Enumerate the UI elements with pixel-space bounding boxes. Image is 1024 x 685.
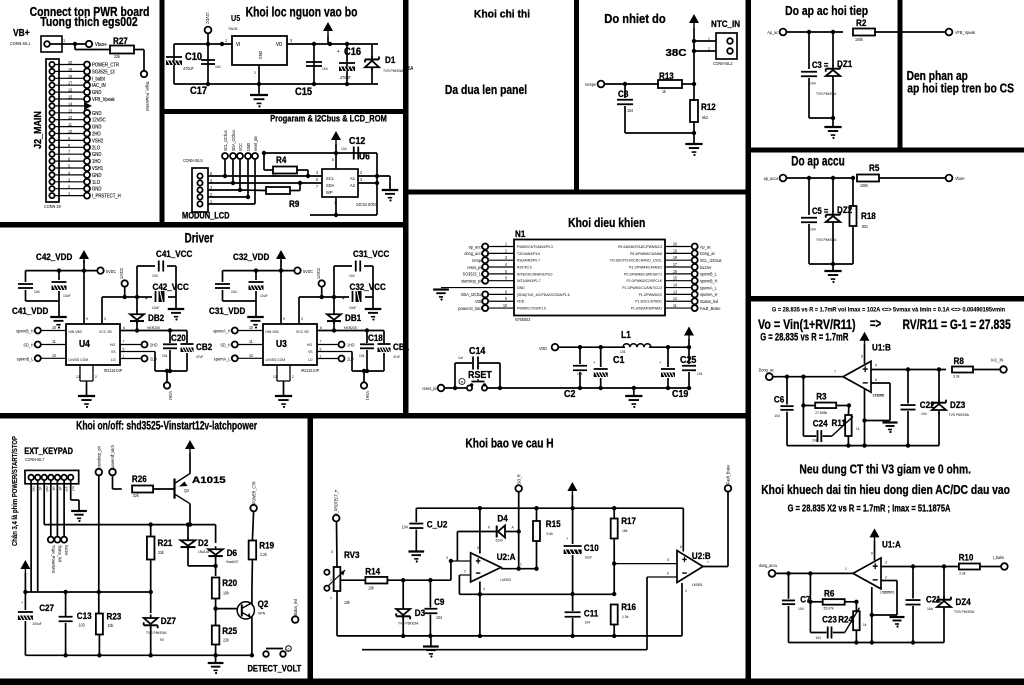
svg-text:R10: R10: [959, 552, 974, 563]
svg-text:SG3525_10: SG3525_10: [463, 271, 484, 276]
svg-text:Q3: Q3: [184, 488, 190, 493]
svg-text:470uF: 470uF: [340, 75, 351, 80]
svg-text:R24: R24: [838, 614, 853, 625]
svg-text:GND: GND: [92, 152, 102, 157]
svg-text:Khoi loc nguon vao bo: Khoi loc nguon vao bo: [246, 4, 358, 20]
svg-text:Vo = Vin(1+RV/R11): Vo = Vin(1+RV/R11): [758, 317, 856, 333]
svg-text:spwmA_L: spwmA_L: [700, 285, 717, 290]
svg-text:6: 6: [320, 326, 322, 330]
svg-text:R8: R8: [954, 355, 964, 366]
svg-text:+: +: [145, 296, 148, 301]
svg-text:N1: N1: [515, 228, 525, 239]
svg-text:Chân 3,4 là phim POWER/START/S: Chân 3,4 là phim POWER/START/STOP: [12, 435, 20, 546]
svg-text:100uF: 100uF: [32, 622, 42, 626]
svg-text:dong_accu: dong_accu: [464, 251, 483, 256]
svg-text:3.3k: 3.3k: [953, 374, 960, 378]
svg-text:5.6k: 5.6k: [547, 532, 554, 536]
svg-text:buzzer: buzzer: [64, 545, 69, 556]
svg-text:C10: C10: [185, 51, 202, 63]
svg-text:PWM2/C6/T0AIN4/P0.3: PWM2/C6/T0AIN4/P0.3: [517, 245, 553, 249]
svg-text:C11: C11: [584, 608, 598, 619]
svg-text:3: 3: [301, 317, 303, 321]
svg-text:10uF: 10uF: [585, 555, 593, 559]
svg-text:gn6: gn6: [65, 487, 69, 492]
svg-text:spwmB_L: spwmB_L: [700, 271, 717, 276]
svg-text:47uF: 47uF: [393, 355, 400, 359]
svg-text:1LO: 1LO: [92, 179, 100, 184]
svg-text:103: 103: [79, 622, 86, 627]
svg-text:20: 20: [68, 60, 73, 65]
svg-text:U2:A: U2:A: [497, 551, 516, 562]
svg-text:U1:A: U1:A: [882, 539, 901, 550]
svg-text:IR2110.DIP: IR2110.DIP: [104, 368, 122, 373]
svg-text:104: 104: [697, 372, 702, 376]
svg-text:2: 2: [330, 578, 332, 582]
svg-text:9had007: 9had007: [226, 560, 239, 564]
svg-text:5: 5: [123, 347, 125, 351]
svg-text:R5: R5: [869, 162, 879, 173]
svg-text:C6: C6: [774, 394, 784, 405]
svg-text:3.3k: 3.3k: [959, 571, 966, 575]
svg-text:C12: C12: [349, 135, 366, 147]
svg-text:R13: R13: [659, 70, 674, 81]
svg-text:TXD/AIN3/P3.6: TXD/AIN3/P3.6: [517, 252, 540, 256]
svg-text:Khoi khuech dai tin hieu dong: Khoi khuech dai tin hieu dong dien AC/DC…: [761, 483, 1010, 497]
svg-text:LO: LO: [308, 358, 313, 362]
svg-text:1HO: 1HO: [347, 342, 355, 347]
svg-text:Fault_Brake: Fault_Brake: [700, 306, 721, 311]
svg-text:P1.0/PWM2/C2/SPCLK: P1.0/PWM2/C2/SPCLK: [627, 279, 663, 283]
svg-text:CONN-SIL2: CONN-SIL2: [713, 61, 733, 66]
svg-text:C14: C14: [469, 345, 486, 357]
svg-text:100k: 100k: [855, 37, 863, 42]
svg-text:12VDC: 12VDC: [119, 267, 124, 279]
svg-text:2: 2: [505, 248, 507, 253]
svg-text:8: 8: [505, 289, 507, 294]
svg-text:VB+: VB+: [13, 27, 30, 38]
svg-text:st5: st5: [58, 487, 62, 491]
svg-text:R21: R21: [158, 537, 173, 548]
svg-text:17: 17: [673, 262, 677, 267]
svg-text:2.2k: 2.2k: [260, 552, 267, 557]
svg-text:104: 104: [810, 81, 816, 85]
svg-text:TVS P6KE5A: TVS P6KE5A: [383, 69, 404, 73]
svg-text:2HO: 2HO: [150, 342, 158, 347]
svg-text:104: 104: [152, 274, 158, 278]
svg-text:A1015: A1015: [192, 475, 226, 486]
svg-text:+: +: [476, 556, 481, 567]
svg-text:D1: D1: [385, 54, 395, 65]
svg-text:VFB_Vpeak: VFB_Vpeak: [92, 97, 115, 102]
svg-text:bz7: bz7: [71, 487, 75, 492]
svg-text:R20: R20: [222, 577, 237, 588]
svg-text:11: 11: [68, 122, 73, 127]
svg-text:13: 13: [273, 375, 277, 379]
svg-text:reset_pin: reset_pin: [422, 386, 438, 391]
svg-text:VSH2: VSH2: [168, 391, 173, 400]
svg-text:Driver: Driver: [185, 230, 214, 246]
svg-text:startstop_pin: startstop_pin: [461, 278, 483, 283]
svg-text:104: 104: [436, 615, 443, 620]
svg-text:U1:B: U1:B: [872, 342, 891, 353]
svg-text:reset_pin: reset_pin: [253, 136, 258, 151]
svg-text:LIN/SS COM: LIN/SS COM: [69, 358, 89, 362]
svg-text:Fault_Brake: Fault_Brake: [725, 465, 730, 484]
svg-text:C8: C8: [618, 88, 628, 99]
svg-text:C32_VDD: C32_VDD: [233, 251, 269, 262]
svg-text:C16: C16: [344, 46, 361, 58]
svg-text:−: −: [863, 378, 868, 390]
svg-text:G = 28.835 vs R = 1.7mR: G = 28.835 vs R = 1.7mR: [760, 331, 848, 344]
svg-text:19: 19: [673, 248, 677, 253]
svg-text:9: 9: [505, 296, 507, 301]
svg-text:Khoi bao ve cau H: Khoi bao ve cau H: [465, 438, 553, 451]
svg-text:R14: R14: [365, 566, 380, 577]
svg-text:18: 18: [68, 73, 73, 78]
svg-text:Khoi dieu khien: Khoi dieu khien: [568, 216, 645, 230]
svg-text:RST/P2.0: RST/P2.0: [517, 265, 532, 269]
svg-text:104: 104: [798, 607, 804, 611]
svg-text:104: 104: [231, 290, 237, 294]
svg-text:C13: C13: [77, 610, 92, 621]
svg-text:VDD: VDD: [475, 299, 483, 304]
svg-text:3: 3: [104, 317, 106, 321]
svg-text:NPN: NPN: [258, 611, 265, 615]
svg-text:GND: GND: [92, 90, 102, 95]
svg-text:VDD: VDD: [539, 346, 547, 351]
svg-text:DZ7: DZ7: [161, 615, 176, 626]
svg-text:5VDC: 5VDC: [303, 269, 313, 274]
svg-text:D3: D3: [415, 607, 425, 618]
svg-text:VCC VB: VCC VB: [99, 330, 112, 334]
svg-text:P0.26/CPCH/OCDCH/RxD_1/SCL: P0.26/CPCH/OCDCH/RxD_1/SCL: [610, 258, 662, 262]
svg-text:P0.2/PWM6/C3/MOSI/T1: P0.2/PWM6/C3/MOSI/T1: [624, 272, 662, 276]
svg-text:R6: R6: [824, 588, 834, 599]
svg-text:spwmA_H: spwmA_H: [700, 292, 717, 297]
svg-text:CONN-SIL7: CONN-SIL7: [25, 457, 45, 462]
svg-text:12: 12: [249, 352, 254, 357]
svg-text:CB1: CB1: [393, 341, 409, 352]
svg-text:104: 104: [349, 274, 355, 278]
svg-text:R17: R17: [621, 515, 636, 526]
svg-text:5: 5: [667, 558, 669, 562]
svg-text:5: 5: [320, 347, 322, 351]
svg-text:R26: R26: [132, 473, 147, 484]
svg-text:I_batin: I_batin: [993, 554, 1005, 559]
svg-text:D2: D2: [198, 537, 208, 548]
svg-text:DETECT_VOLT: DETECT_VOLT: [248, 663, 302, 674]
svg-text:P1.4/SDA/FB/PWM1: P1.4/SDA/FB/PWM1: [631, 306, 662, 310]
svg-text:G = 28.835 vs R = 1.7mR voi Im: G = 28.835 vs R = 1.7mR voi Imax = 102A …: [772, 307, 1006, 313]
svg-text:C23: C23: [822, 614, 837, 625]
svg-text:st4: st4: [51, 487, 55, 491]
svg-text:HIN VB3: HIN VB3: [69, 330, 82, 334]
svg-text:VCC: VCC: [238, 143, 243, 151]
svg-text:HER205: HER205: [344, 326, 357, 330]
svg-text:RV3: RV3: [344, 549, 360, 560]
svg-text:1: 1: [334, 201, 336, 205]
svg-text:2: 2: [292, 375, 294, 379]
svg-text:24C04 SON: 24C04 SON: [356, 202, 376, 207]
svg-text:2: 2: [464, 569, 466, 573]
svg-text:d: d: [288, 647, 290, 651]
svg-text:5: 5: [505, 269, 507, 274]
svg-text:Tuong thich egs002: Tuong thich egs002: [40, 16, 137, 29]
svg-text:12: 12: [673, 296, 677, 301]
svg-text:5VDC: 5VDC: [106, 269, 116, 274]
svg-text:R2: R2: [856, 17, 866, 28]
svg-text:P1.2/PWM0/C0: P1.2/PWM0/C0: [639, 293, 662, 297]
svg-text:1: 1: [123, 354, 125, 358]
svg-text:SD_H: SD_H: [220, 342, 230, 347]
svg-text:TVS P6KE5A: TVS P6KE5A: [949, 413, 970, 417]
svg-text:spwmA_H: spwmA_H: [213, 328, 230, 333]
svg-text:U3: U3: [276, 338, 287, 349]
svg-text:16A: 16A: [927, 607, 934, 611]
svg-text:G = 28.835 X2 vs R = 1.7mR ; I: G = 28.835 X2 vs R = 1.7mR ; Imax = 51.1…: [788, 502, 951, 513]
svg-text:8: 8: [477, 546, 479, 550]
svg-text:Ap_ac: Ap_ac: [700, 244, 711, 249]
svg-text:Triger_PowerMrst: Triger_PowerMrst: [51, 545, 56, 574]
svg-text:10uF: 10uF: [349, 306, 356, 310]
svg-text:IAC_IN: IAC_IN: [991, 357, 1003, 362]
svg-text:R18: R18: [861, 210, 876, 221]
svg-text:ap_accu: ap_accu: [764, 176, 779, 181]
svg-text:7: 7: [320, 339, 322, 343]
svg-text:VI: VI: [236, 42, 240, 47]
svg-text:1N4148: 1N4148: [198, 550, 209, 554]
svg-text:6: 6: [123, 326, 125, 330]
svg-text:INT1/AIN3/P1.7: INT1/AIN3/P1.7: [517, 279, 541, 283]
svg-text:104: 104: [322, 67, 328, 71]
svg-text:13: 13: [673, 289, 677, 294]
svg-text:C20: C20: [171, 332, 186, 343]
svg-text:C2: C2: [564, 388, 576, 400]
svg-text:HO: HO: [110, 343, 115, 347]
svg-text:Do ap accu: Do ap accu: [791, 153, 844, 169]
svg-text:104: 104: [585, 620, 591, 624]
svg-text:C31_VCC: C31_VCC: [353, 248, 390, 259]
svg-text:Do ap ac hoi tiep: Do ap ac hoi tiep: [785, 4, 868, 18]
svg-text:TVS P6KE5A: TVS P6KE5A: [398, 621, 419, 625]
svg-text:C9: C9: [434, 596, 444, 607]
svg-text:R11: R11: [832, 417, 846, 428]
svg-text:poweroff_latch: poweroff_latch: [110, 445, 115, 468]
svg-text:6k2: 6k2: [702, 115, 709, 120]
svg-text:1: 1: [320, 354, 322, 358]
svg-text:NTC_IN: NTC_IN: [711, 18, 740, 29]
svg-text:18: 18: [673, 255, 677, 260]
svg-text:10k: 10k: [223, 590, 229, 595]
svg-text:1k: 1k: [662, 89, 666, 94]
svg-text:8: 8: [680, 545, 682, 549]
svg-text:10: 10: [68, 129, 73, 134]
svg-text:P3.1/PWM4/C4/MISO: P3.1/PWM4/C4/MISO: [629, 265, 662, 269]
svg-text:CONN-SIL5: CONN-SIL5: [183, 158, 203, 163]
svg-text:powerctr_latch: powerctr_latch: [458, 306, 483, 311]
svg-text:Triger_Powerstrst: Triger_Powerstrst: [145, 81, 150, 112]
svg-text:C17: C17: [190, 85, 207, 97]
svg-text:Q2: Q2: [258, 598, 269, 609]
svg-text:6: 6: [505, 275, 507, 280]
svg-text:SCL_I2Cbus: SCL_I2Cbus: [700, 258, 722, 263]
svg-text:POWER_CTR: POWER_CTR: [251, 481, 256, 504]
svg-text:tempe: tempe: [472, 258, 483, 263]
svg-text:SDA_I2Cbus: SDA_I2Cbus: [231, 130, 236, 151]
svg-text:VFB_Vpeak: VFB_Vpeak: [955, 30, 976, 35]
svg-text:GND: GND: [92, 110, 102, 115]
svg-text:DZ3: DZ3: [950, 399, 965, 410]
svg-text:WP: WP: [326, 190, 333, 195]
svg-text:11: 11: [673, 303, 677, 308]
svg-text:C15: C15: [295, 86, 312, 98]
svg-text:104: 104: [627, 108, 634, 113]
svg-text:Vbat+: Vbat+: [955, 176, 966, 181]
svg-text:18k: 18k: [622, 529, 628, 533]
svg-text:HIN VB3: HIN VB3: [266, 330, 279, 334]
svg-text:VS: VS: [111, 350, 116, 354]
svg-text:+: +: [682, 554, 687, 565]
svg-text:−: −: [682, 568, 687, 579]
svg-text:16: 16: [673, 269, 677, 274]
svg-text:12: 12: [68, 115, 73, 120]
svg-text:14: 14: [68, 101, 73, 106]
svg-text:7: 7: [123, 339, 125, 343]
svg-text:1HO: 1HO: [92, 159, 101, 164]
svg-text:−: −: [873, 575, 878, 587]
svg-text:P5.4/AIN5/STADC/PWM5/C3: P5.4/AIN5/STADC/PWM5/C3: [618, 245, 662, 249]
svg-text:104: 104: [402, 524, 409, 529]
svg-text:R16: R16: [621, 601, 636, 612]
svg-text:ap_accu: ap_accu: [469, 244, 484, 249]
svg-text:CONN-28: CONN-28: [44, 204, 61, 209]
svg-text:2LO: 2LO: [150, 356, 157, 361]
svg-text:3: 3: [505, 255, 507, 260]
svg-text:15: 15: [673, 275, 677, 280]
svg-text:SG3525_13: SG3525_13: [92, 69, 115, 74]
svg-text:1: 1: [520, 562, 522, 566]
svg-text:CONN-SIL1: CONN-SIL1: [10, 41, 31, 46]
svg-text:−: −: [476, 568, 481, 579]
svg-text:10k: 10k: [344, 600, 350, 605]
svg-text:470uF: 470uF: [183, 66, 194, 71]
svg-text:4: 4: [685, 589, 687, 593]
svg-text:ap hoi tiep tren bo CS: ap hoi tiep tren bo CS: [907, 81, 1014, 95]
svg-text:1: 1: [845, 567, 847, 571]
svg-text:8: 8: [332, 158, 334, 162]
svg-text:5V: 5V: [160, 638, 165, 642]
svg-text:12VDC: 12VDC: [205, 12, 210, 24]
svg-text:C24: C24: [813, 418, 828, 429]
svg-text:I_PROTECT_H: I_PROTECT_H: [333, 489, 338, 514]
svg-text:P1.3/SCL/STADC: P1.3/SCL/STADC: [635, 299, 662, 303]
svg-text:100k: 100k: [860, 183, 868, 188]
svg-text:8: 8: [871, 551, 873, 555]
svg-text:78L05: 78L05: [228, 27, 237, 31]
svg-text:GND: GND: [92, 186, 102, 191]
svg-text:1.5k: 1.5k: [622, 615, 629, 619]
svg-text:P5.3/PWM5/C5/AIN6: P5.3/PWM5/C5/AIN6: [630, 252, 662, 256]
svg-text:VSH2: VSH2: [92, 138, 103, 143]
svg-text:101: 101: [620, 350, 626, 354]
svg-text:2: 2: [95, 375, 97, 379]
svg-text:spwmB_H: spwmB_H: [700, 278, 717, 283]
svg-text:tempe: tempe: [585, 82, 596, 87]
svg-text:104: 104: [341, 147, 347, 151]
svg-text:9: 9: [86, 317, 88, 321]
svg-text:7: 7: [707, 560, 709, 564]
svg-text:SDA: SDA: [326, 183, 334, 188]
svg-text:N76E003: N76E003: [515, 317, 531, 322]
svg-text:D6: D6: [227, 547, 237, 558]
svg-text:901: 901: [862, 224, 869, 229]
svg-text:DZ1: DZ1: [837, 58, 852, 69]
svg-text:buzzer: buzzer: [700, 265, 712, 270]
svg-text:Progaram & I2Cbus & LCD_ROM: Progaram & I2Cbus & LCD_ROM: [270, 113, 387, 124]
svg-text:R23: R23: [107, 611, 122, 622]
svg-text:10k: 10k: [108, 623, 114, 628]
svg-text:16: 16: [68, 87, 73, 92]
svg-text:C32_VCC: C32_VCC: [350, 281, 387, 292]
svg-text:DB2: DB2: [148, 312, 164, 323]
svg-text:Khoi on/off: shd3525-Vinstart1: Khoi on/off: shd3525-Vinstart12v-latchpo…: [76, 420, 257, 433]
svg-text:LIN/SS COM: LIN/SS COM: [266, 358, 286, 362]
svg-text:1: 1: [330, 596, 332, 600]
svg-text:6: 6: [667, 571, 669, 575]
svg-text:3: 3: [446, 556, 448, 560]
svg-text:104: 104: [162, 354, 167, 358]
svg-text:R25: R25: [222, 625, 237, 636]
svg-text:+: +: [863, 365, 868, 377]
svg-text:C42_VDD: C42_VDD: [36, 251, 72, 262]
svg-text:12VDC: 12VDC: [92, 117, 106, 122]
svg-text:10: 10: [503, 303, 507, 308]
svg-text:2HO: 2HO: [92, 131, 101, 136]
svg-text:2: 2: [885, 575, 887, 579]
svg-text:1k: 1k: [863, 623, 867, 627]
svg-text:spwmB_H: spwmB_H: [16, 328, 33, 333]
svg-text:EXT_KEYPAD: EXT_KEYPAD: [24, 446, 73, 456]
svg-text:GND: GND: [517, 286, 525, 290]
svg-text:CB2: CB2: [196, 341, 212, 352]
svg-text:R4a: R4a: [272, 174, 278, 178]
svg-text:9: 9: [283, 317, 285, 321]
svg-text:=>: =>: [870, 317, 881, 332]
svg-text:D4: D4: [497, 513, 507, 524]
svg-text:spwmA_L: spwmA_L: [214, 356, 231, 361]
svg-text:2LO: 2LO: [92, 145, 100, 150]
svg-text:1LO: 1LO: [347, 356, 354, 361]
svg-text:Status_led: Status_led: [293, 599, 298, 616]
svg-text:HO: HO: [307, 343, 312, 347]
svg-text:13: 13: [76, 375, 80, 379]
svg-text:LM393: LM393: [692, 583, 702, 587]
svg-text:R9: R9: [289, 198, 299, 209]
svg-text:104: 104: [34, 290, 40, 294]
svg-text:38C: 38C: [666, 48, 687, 59]
svg-text:LT1076: LT1076: [873, 393, 884, 397]
svg-text:LM393: LM393: [500, 578, 510, 582]
svg-text:IR2110.DIP: IR2110.DIP: [301, 368, 319, 373]
svg-text:6: 6: [875, 378, 877, 382]
svg-text:P1.1/PWM1/C1/AIN7/CLO: P1.1/PWM1/C1/AIN7/CLO: [622, 286, 662, 290]
svg-text:VSH1: VSH1: [365, 391, 370, 400]
svg-text:15: 15: [68, 94, 73, 99]
svg-text:104: 104: [359, 354, 364, 358]
svg-text:TVS P6KE5A: TVS P6KE5A: [954, 610, 975, 614]
svg-text:HER205: HER205: [147, 326, 160, 330]
svg-text:Dong_ac: Dong_ac: [700, 251, 715, 256]
